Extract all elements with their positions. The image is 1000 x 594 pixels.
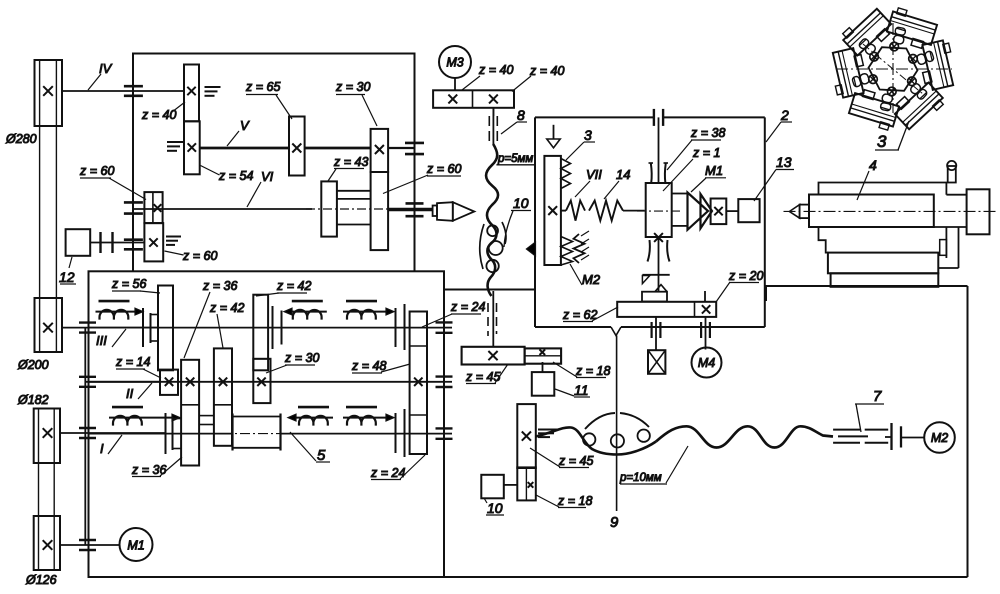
- bearing pair shaft I at belt line: [79, 427, 96, 429]
- gear z=60 lower-left: [144, 223, 163, 261]
- gear z=60 on VI (right): [371, 172, 389, 250]
- pulley centre X (shaft IV): [43, 86, 53, 96]
- gear z=40 on IV: [184, 65, 199, 122]
- gear bar z=62 / z=20: [617, 302, 716, 317]
- leadscrew 8 dashed lower: [492, 291, 494, 347]
- spline right of z60 lower: [166, 236, 181, 238]
- shaft I right stub: [444, 433, 452, 435]
- handle pin: [948, 166, 956, 183]
- clutch shaft III mid-right: [346, 300, 377, 303]
- shaft of box 12: [90, 242, 144, 244]
- svg-text:z = 1: z = 1: [692, 146, 720, 160]
- svg-text:IV: IV: [99, 61, 113, 76]
- flange pair shaft VI at wall: [406, 202, 424, 205]
- rails before z24 top: [395, 308, 397, 347]
- svg-text:10: 10: [513, 195, 529, 211]
- pulley X (shaft I): [43, 428, 53, 438]
- motor M4: [692, 348, 722, 378]
- shaft VII line: [623, 210, 645, 212]
- flange pair shaft V at wall: [405, 142, 424, 145]
- svg-text:z = 60: z = 60: [79, 164, 114, 178]
- gear z=56: [158, 286, 173, 371]
- spline left of z54: [167, 141, 183, 143]
- svg-text:z = 14: z = 14: [115, 355, 150, 369]
- svg-text:M1: M1: [705, 163, 723, 178]
- spindle housing top: [819, 183, 947, 195]
- stub box10: [504, 484, 518, 486]
- svg-text:I: I: [100, 441, 104, 456]
- camshaft gear z=18 lower: [517, 467, 536, 500]
- rails right of z42/z30 block: [272, 306, 274, 349]
- svg-text:z = 42: z = 42: [209, 301, 244, 315]
- motor M2: [924, 422, 955, 453]
- rails before z24 bottom: [395, 413, 397, 453]
- pulley block D280 (top): [35, 60, 63, 126]
- worm wheel z=38 horns: [650, 163, 653, 183]
- spindle barrel: [809, 195, 934, 228]
- shaft VI centreline: [306, 208, 396, 210]
- nut arcs: [480, 224, 484, 269]
- svg-text:z = 30: z = 30: [335, 80, 370, 94]
- spline pair on shaft 7: [833, 429, 860, 431]
- shaft VII right: [672, 193, 688, 195]
- svg-text:z = 24: z = 24: [450, 300, 485, 314]
- coupling on box12 shaft: [99, 232, 101, 253]
- right bracket: [945, 227, 947, 258]
- spindle nose: [800, 205, 809, 219]
- flange pair left output: [650, 322, 652, 338]
- clutch shaft I left: [112, 406, 143, 409]
- camshaft cradle base: [536, 427, 656, 454]
- svg-text:z = 40: z = 40: [141, 108, 176, 122]
- x of z40: [187, 87, 195, 95]
- svg-text:р=10мм: р=10мм: [619, 472, 662, 484]
- x of z54: [188, 143, 196, 151]
- worm centreline: [637, 210, 680, 212]
- shaft to z62: [658, 275, 660, 292]
- friction cones M1: [688, 193, 709, 230]
- flange coupling on box2 top edge: [653, 109, 655, 126]
- svg-text:M1: M1: [127, 539, 144, 553]
- bearing pair shaft II right wall: [436, 375, 453, 377]
- svg-text:9: 9: [610, 514, 619, 531]
- spline right of z45 vert: [538, 429, 558, 431]
- stub to box 13: [726, 210, 738, 212]
- sleeve 5 on shaft I: [231, 414, 233, 451]
- svg-text:z = 18: z = 18: [557, 494, 592, 508]
- pulley X (motor shaft): [43, 540, 53, 550]
- frame box 2 (turret slide unit): [535, 116, 653, 118]
- svg-text:12: 12: [59, 269, 75, 285]
- jaw clutch line: [642, 274, 669, 276]
- svg-text:z = 43: z = 43: [333, 155, 368, 169]
- svg-text:11: 11: [574, 382, 589, 398]
- shaft II stub: [85, 381, 160, 383]
- fork cap on z62 bar: [642, 292, 667, 302]
- shaft III: [89, 327, 151, 329]
- output shaft right below z62: [705, 317, 707, 350]
- svg-text:2: 2: [780, 107, 789, 123]
- gear z=30 on V: [371, 129, 389, 172]
- svg-text:M2: M2: [931, 431, 948, 445]
- frame stub at 766: [765, 286, 767, 301]
- flange pair shaft VI at wall x133: [124, 201, 143, 204]
- svg-text:z = 40: z = 40: [478, 63, 513, 77]
- shaft VII zigzag springs: [561, 210, 566, 212]
- svg-text:z = 40: z = 40: [529, 64, 564, 78]
- leadscrew 8 top: [492, 108, 494, 116]
- pulley block D126: [34, 516, 60, 570]
- svg-text:III: III: [96, 333, 107, 348]
- belt line vertical: [84, 328, 86, 545]
- svg-text:V: V: [240, 118, 250, 133]
- plate teeth top: [561, 159, 571, 189]
- svg-text:z = 36: z = 36: [202, 279, 237, 293]
- pulley centre X (shaft III, D200): [43, 323, 53, 333]
- svg-text:z = 24: z = 24: [370, 466, 405, 480]
- motor M1: [120, 528, 153, 561]
- gear z=54: [184, 121, 200, 174]
- base lower: [831, 273, 939, 287]
- clutch shaft I mid-left: [298, 406, 329, 409]
- right block: [967, 189, 990, 234]
- pointer triangle to screw: [526, 242, 535, 256]
- svg-text:Ø280: Ø280: [5, 132, 37, 146]
- frame upper gearbox (feed box): [133, 54, 415, 272]
- svg-text:z = 48: z = 48: [351, 359, 386, 373]
- svg-text:VI: VI: [261, 169, 274, 184]
- svg-text:8: 8: [517, 107, 525, 123]
- clutch box 12: [66, 229, 91, 256]
- svg-text:M2: M2: [582, 272, 601, 287]
- cam arcs above: [585, 413, 615, 429]
- vertical shaft below worm: [658, 237, 660, 275]
- svg-text:z = 60: z = 60: [182, 249, 217, 263]
- bearing pair motor shaft at belt line: [79, 539, 96, 541]
- spring on M2 ratchet: [574, 234, 585, 263]
- shaft II right stub: [444, 381, 452, 383]
- bearing pair shaft II at belt line: [79, 376, 96, 378]
- svg-text:14: 14: [616, 167, 630, 182]
- cam plate 3: [544, 156, 561, 265]
- gear bar z45/z18 upper: [462, 347, 525, 365]
- shaft VI: [133, 208, 312, 210]
- camshaft line 9 vertical: [616, 336, 618, 512]
- clutch shaft III left: [99, 300, 130, 303]
- clutch shaft III mid-left: [292, 300, 323, 303]
- lower horn pair: [648, 240, 650, 262]
- gear z=60 upper-left block on VI: [144, 192, 162, 223]
- base upper: [828, 253, 938, 274]
- box 13: [738, 199, 759, 222]
- svg-text:VII: VII: [586, 167, 602, 182]
- output shaft left below z62: [655, 317, 657, 350]
- svg-text:z = 42: z = 42: [276, 279, 311, 293]
- svg-text:р=5мм: р=5мм: [497, 153, 533, 165]
- svg-text:z = 54: z = 54: [218, 169, 253, 183]
- gear block z=36 on II: [181, 360, 199, 466]
- bearing pair shaft III right wall: [436, 321, 453, 323]
- svg-text:z = 60: z = 60: [426, 162, 461, 176]
- shaft I: [89, 433, 233, 435]
- leadscrew 8 wavy (p=5mm): [486, 144, 498, 296]
- shaft V: [200, 147, 289, 150]
- gear cell z18 upper: [525, 348, 562, 363]
- svg-text:z = 18: z = 18: [575, 364, 610, 378]
- spindle centreline: [784, 210, 997, 212]
- frame right apron box: [443, 271, 445, 577]
- vertical worm shaft top: [658, 117, 660, 163]
- shaft I centreline: [168, 433, 443, 435]
- sleeve z43 to z60: [337, 190, 371, 192]
- svg-text:13: 13: [776, 154, 792, 170]
- leadscrew 8 dashed section: [492, 108, 494, 145]
- bearing pair shaft I right wall: [436, 427, 453, 429]
- svg-text:7: 7: [873, 388, 882, 405]
- gear z=14: [160, 370, 178, 395]
- sleeve between z36 and z42: [199, 415, 214, 417]
- gear bar z40/z40: [433, 90, 514, 108]
- rails shaft I left: [165, 413, 167, 454]
- gear z=30 lower with x: [253, 359, 270, 403]
- tool cone on VI: [433, 206, 437, 217]
- stub above z20: [704, 291, 706, 302]
- gear on clutch shaft: [711, 199, 727, 225]
- bearing pair shaft III at belt line: [79, 321, 96, 323]
- svg-text:Ø126: Ø126: [25, 573, 57, 587]
- svg-text:3: 3: [584, 127, 592, 143]
- box 11: [532, 372, 555, 396]
- left staircase: [819, 227, 828, 253]
- gear z=43: [321, 181, 337, 236]
- worm block z=1: [646, 183, 672, 237]
- svg-text:z = 38: z = 38: [690, 126, 725, 140]
- flange pair at wall box12 shaft: [124, 238, 143, 241]
- frame lower gearbox (speed box): [89, 271, 445, 577]
- connect piece: [946, 194, 966, 196]
- flange pair on shaft IV at wall: [124, 85, 143, 88]
- coupling before M2: [890, 423, 892, 450]
- rails shaft III left: [142, 308, 144, 347]
- crossed slide block: [648, 350, 665, 374]
- x below worm block: [654, 233, 663, 242]
- box 10: [481, 475, 504, 499]
- svg-text:Ø200: Ø200: [17, 358, 49, 372]
- svg-text:M3: M3: [446, 56, 463, 70]
- svg-text:z = 45: z = 45: [558, 454, 593, 468]
- gear z=65: [289, 117, 305, 176]
- camshaft wave to M2: [656, 426, 833, 447]
- spline right of z40: [205, 86, 221, 88]
- svg-text:M4: M4: [698, 356, 715, 370]
- clutch shaft I mid-right: [346, 406, 377, 409]
- svg-text:Ø182: Ø182: [17, 393, 49, 407]
- shaft VI output thick: [388, 208, 433, 211]
- shaft to M2: [901, 437, 924, 439]
- svg-text:4: 4: [869, 157, 877, 173]
- stub to box 11: [542, 362, 544, 372]
- motor M3: [439, 46, 471, 78]
- flange pair right output: [700, 322, 702, 338]
- shaft III right stub: [444, 327, 452, 329]
- gear block z=42/z=30 on III: [253, 295, 268, 371]
- shaft II: [89, 381, 445, 383]
- gear block z=42 on II (centre): [214, 348, 232, 445]
- motor M1 shaft: [60, 544, 120, 546]
- notch under box 2: [611, 327, 621, 336]
- gear block z24/z48/z24: [410, 312, 427, 455]
- nut rollers 10: [487, 225, 498, 236]
- turret head 3: [828, 5, 958, 133]
- M3 shaft: [454, 78, 456, 90]
- shaft III outside: [62, 327, 158, 329]
- svg-text:z = 62: z = 62: [562, 308, 597, 322]
- pulley block D182: [34, 409, 60, 464]
- camshaft gear z=45 vertical: [517, 404, 536, 468]
- cam rollers: [583, 433, 595, 445]
- svg-text:z = 30: z = 30: [284, 351, 319, 365]
- svg-text:z = 65: z = 65: [245, 80, 280, 94]
- shaft IV: [62, 90, 184, 92]
- svg-text:3: 3: [877, 132, 887, 151]
- svg-text:z = 56: z = 56: [111, 277, 146, 291]
- plate teeth bottom: [561, 237, 573, 266]
- down arrow onto plate: [553, 125, 555, 139]
- svg-text:10: 10: [487, 500, 503, 516]
- shaft I outside: [60, 432, 165, 434]
- svg-text:z = 20: z = 20: [728, 269, 763, 283]
- svg-text:II: II: [126, 386, 134, 401]
